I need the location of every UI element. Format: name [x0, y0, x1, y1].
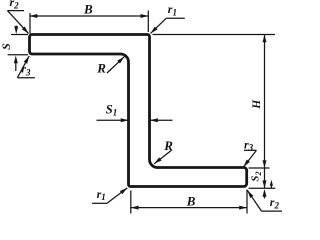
dimension B bottom: line [131, 207, 247, 209]
svg-text:H: H [251, 99, 263, 110]
leader r1 top-right: shelf [166, 17, 185, 19]
dimension B bottom: left extension line [130, 191, 132, 214]
svg-text:R: R [96, 60, 106, 75]
bottom flange top edge extension line [249, 167, 270, 169]
leader r3 top-right: shelf [244, 149, 257, 151]
dimension B bottom: right extension line [246, 190, 248, 214]
Z-profile outline [30, 35, 247, 187]
dimension S1: line left segment [97, 119, 129, 121]
svg-text:r1: r1 [168, 2, 177, 17]
dimension S: upper arrow stem [15, 26, 17, 31]
arrowhead r3 top-right leader [242, 160, 250, 169]
svg-text:r2: r2 [270, 195, 280, 210]
dimension S: top extension line [11, 34, 28, 36]
arrowhead S2 lower (up, below bottom ext) [263, 189, 267, 197]
bottom flange bottom edge extension line [249, 187, 276, 189]
arrowhead S1 right (left-pointing) [150, 118, 158, 122]
top edge extension line to H [153, 34, 276, 36]
arrowhead H top (up) [263, 35, 267, 43]
dimension B top: line [30, 15, 149, 17]
svg-text:r2: r2 [10, 0, 20, 11]
leader r3 top-right: diagonal [244, 150, 257, 167]
arrowhead r3 top-left leader [24, 55, 31, 64]
arrowhead S lower (up) [14, 56, 18, 64]
leader r1 bottom-left: shelf [92, 202, 107, 204]
leader R top: diagonal [107, 57, 124, 73]
leader R bottom: diagonal [154, 150, 172, 164]
leader r2 bottom-right: shelf [262, 210, 283, 212]
arrowhead r1 bottom-left leader [120, 186, 129, 194]
arrowhead H bottom (down) [263, 180, 267, 188]
dimension B top: left extension line [29, 13, 31, 34]
arrowhead R top leader [117, 55, 125, 63]
arrowhead B bottom left [131, 206, 139, 210]
arrowhead B bottom right [239, 206, 247, 210]
arrowhead B top right [141, 14, 149, 18]
arrowhead r2 top-left leader [22, 27, 30, 35]
arrowhead r2 bottom-right leader [246, 189, 254, 198]
leader r2 bottom-right: diagonal [247, 190, 261, 211]
arrowhead S upper (down) [14, 26, 18, 34]
dimension S2: lower arrow stem [264, 192, 266, 199]
svg-text:r3: r3 [21, 62, 31, 78]
arrowhead r1 top-right leader [149, 27, 157, 35]
svg-text:r1: r1 [97, 187, 106, 202]
leader r1 bottom-left: diagonal [107, 188, 127, 203]
svg-text:S: S [0, 43, 13, 50]
leader r2 top-left: diagonal [7, 11, 28, 34]
svg-text:B: B [83, 2, 93, 17]
leader r2 top-left: shelf [7, 10, 24, 12]
dimension S1: line right segment [150, 119, 173, 121]
arrowhead B top left [30, 14, 38, 18]
leader r1 top-right: diagonal [151, 18, 167, 33]
svg-text:B: B [186, 194, 196, 209]
arrowhead S2 upper (down, on H line) [263, 160, 267, 168]
svg-text:S2: S2 [250, 171, 263, 181]
leader r3 top-left: shelf [17, 77, 35, 79]
dimension S: lower arrow stem [15, 60, 17, 71]
small tick arrow stem near S2 [270, 184, 272, 188]
dimension B top: right extension line [147, 11, 149, 33]
svg-text:S1: S1 [106, 102, 117, 117]
arrowhead R bottom leader [153, 157, 162, 165]
dimension S: bottom extension line [8, 54, 28, 56]
svg-text:R: R [163, 138, 173, 153]
small tick arrow near S2 (up) [270, 180, 273, 186]
dimension H: line [264, 35, 266, 189]
leader r3 top-left: diagonal [17, 56, 29, 78]
arrowhead S1 left (right-pointing) [121, 118, 129, 122]
svg-text:r3: r3 [244, 137, 254, 152]
